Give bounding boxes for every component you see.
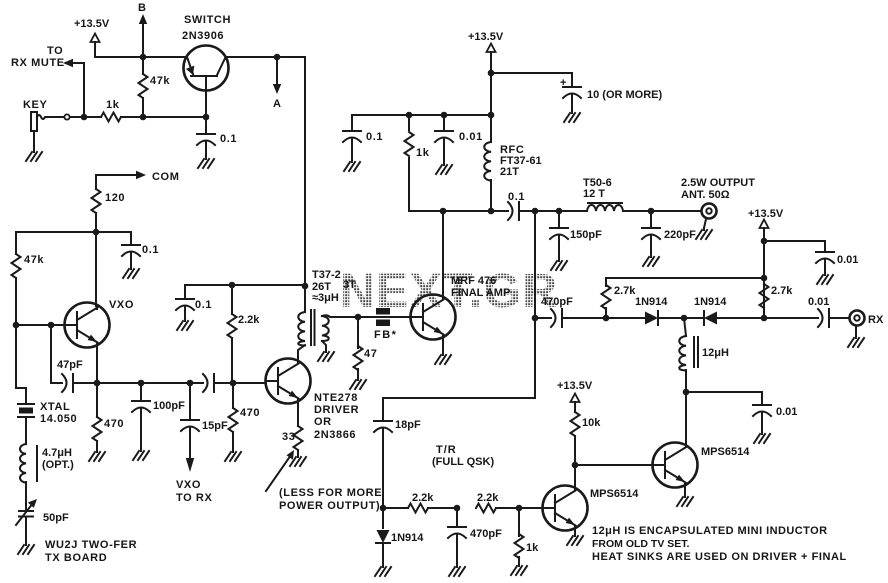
wire final collector: [442, 211, 444, 299]
svg-text:1N914: 1N914: [635, 296, 668, 308]
junction 1k QSK: [516, 505, 523, 512]
svg-text:10k: 10k: [582, 417, 601, 429]
wire crystal branch: [16, 325, 26, 403]
resistor 470 (VXO emitter): [93, 383, 125, 450]
junction driver base node: [230, 380, 237, 387]
capacitor 220pF: [642, 211, 696, 255]
ground (crystal chain): [18, 543, 34, 554]
resistor 10k: [571, 402, 602, 465]
capacitor 15pF: [181, 383, 228, 458]
junction VXO base node: [13, 322, 20, 329]
ground (100pF): [133, 449, 149, 460]
ground (220pF): [643, 255, 659, 266]
svg-text:47pF: 47pF: [57, 359, 83, 371]
node COM arrow: [96, 171, 179, 189]
svg-text:(FULL QSK): (FULL QSK): [432, 456, 494, 468]
ground (470 driver base): [225, 450, 241, 461]
ground (33): [290, 455, 306, 466]
junction 220pF: [648, 208, 655, 215]
transistor NTE278 driver: [266, 359, 360, 442]
resistor 1k (Q1 base): [515, 508, 540, 564]
junction 10uF tap: [488, 70, 495, 77]
svg-text:+13.5V: +13.5V: [748, 208, 784, 220]
resistor 2.7k (left): [602, 278, 765, 318]
svg-text:18pF: 18pF: [395, 419, 421, 431]
junction 2.7k left: [603, 315, 610, 322]
wire to switch base: [143, 90, 206, 117]
svg-text:+: +: [560, 77, 566, 89]
svg-text:1k: 1k: [106, 99, 120, 111]
capacitor 18pF: [374, 419, 421, 508]
ground (1k QSK): [511, 564, 527, 575]
svg-text:0.1: 0.1: [142, 244, 159, 256]
transistor MPS6514 Q1: [543, 486, 640, 531]
wire VXO collector: [96, 232, 97, 309]
svg-text:FINAL AMP: FINAL AMP: [451, 287, 510, 299]
svg-text:NEXT.GR: NEXT.GR: [340, 265, 559, 318]
inductor 4.7uH (OPT.): [20, 444, 74, 510]
key jack: [23, 99, 84, 150]
svg-text:0.1: 0.1: [366, 131, 383, 143]
svg-text:OR: OR: [314, 416, 332, 428]
junction key line: [81, 114, 88, 121]
wire Q2 emitter: [684, 484, 686, 495]
svg-text:FB*: FB*: [374, 329, 397, 341]
ground (Q2 emitter): [677, 495, 693, 506]
svg-text:0.01: 0.01: [808, 296, 829, 308]
capacitor 47pF: [57, 359, 97, 392]
capacitor 0.1 (output coupling): [508, 191, 587, 220]
resistor 2.7k (right): [760, 284, 794, 308]
svg-text:33: 33: [282, 431, 295, 443]
svg-text:15pF: 15pF: [202, 420, 228, 432]
svg-text:TO RX: TO RX: [176, 492, 212, 504]
svg-text:MRF 476: MRF 476: [451, 275, 496, 287]
junction 12uH tap: [681, 315, 688, 322]
wire +13.5V down: [490, 52, 492, 115]
svg-text:ANT. 50Ω: ANT. 50Ω: [681, 189, 730, 201]
connector RX: [850, 311, 884, 337]
resistor 47 (final base): [354, 317, 378, 378]
ground (150pF): [551, 259, 567, 270]
svg-text:(OPT.): (OPT.): [42, 459, 74, 471]
resistor 2.2k (QSK a): [383, 492, 456, 513]
wire +13.5V to node B: [95, 42, 143, 57]
wire cap to driver base: [214, 382, 266, 384]
svg-text:VXO: VXO: [109, 299, 134, 311]
svg-text:T37-2: T37-2: [312, 269, 341, 281]
svg-text:1N914: 1N914: [391, 532, 424, 544]
wire Q2 collector: [685, 392, 687, 447]
ground (key sleeve): [26, 150, 42, 161]
transformer T37-2: [298, 269, 357, 350]
ground (0.01 right): [817, 273, 833, 284]
ground (ANT): [696, 228, 712, 239]
svg-text:TX BOARD: TX BOARD: [45, 552, 107, 564]
capacitor 470pF (RX coupling): [535, 296, 605, 327]
svg-text:2.2k: 2.2k: [477, 492, 499, 504]
text WU2J board: [45, 539, 137, 564]
svg-text:RX MUTE: RX MUTE: [11, 57, 65, 69]
ground (bias cap): [177, 319, 193, 330]
svg-text:120: 120: [105, 192, 125, 204]
svg-text:NTE278: NTE278: [314, 392, 358, 404]
wire Q1 emitter: [574, 527, 576, 534]
junction FB node: [355, 314, 362, 321]
svg-text:470pF: 470pF: [470, 528, 502, 540]
svg-text:47: 47: [364, 348, 377, 360]
svg-text:POWER OUTPUT): POWER OUTPUT): [279, 500, 380, 512]
capacitor 100pF: [132, 383, 185, 449]
transistor VXO: [65, 299, 135, 348]
svg-text:1k: 1k: [416, 147, 430, 159]
svg-text:2N3866: 2N3866: [314, 429, 356, 441]
resistor 1k (driver feed): [405, 115, 444, 211]
power +13.5V symbol (right): [748, 208, 784, 228]
svg-text:MPS6514: MPS6514: [590, 488, 639, 500]
resistor 470 (driver base): [229, 383, 261, 450]
capacitor 0.01 (RX coupling): [764, 296, 848, 327]
ground (0.01 keying): [754, 432, 770, 443]
svg-text:50pF: 50pF: [43, 512, 69, 524]
svg-text:+13.5V: +13.5V: [557, 380, 593, 392]
resistor 2.2k (QSK b): [476, 492, 542, 513]
svg-text:SWITCH: SWITCH: [184, 14, 231, 26]
svg-text:47k: 47k: [150, 75, 170, 87]
svg-text:2.2k: 2.2k: [412, 492, 434, 504]
wire collector node left: [16, 232, 96, 254]
power +13.5V symbol (QSK): [557, 380, 593, 402]
wire 535 down to RX line: [534, 211, 536, 318]
svg-text:470: 470: [240, 407, 260, 419]
svg-text:2.2k: 2.2k: [238, 314, 260, 326]
ground (470 VXO emitter): [89, 450, 105, 461]
svg-text:FROM OLD TV SET.: FROM OLD TV SET.: [592, 538, 690, 550]
resistor 47k (VXO base): [12, 254, 45, 325]
wire VXO emitter: [96, 344, 98, 383]
node A arrow down: [273, 57, 281, 110]
capacitor 0.01 (right supply bypass): [764, 241, 858, 273]
capacitor 470pF (QSK): [448, 508, 502, 565]
svg-text:10 (OR MORE): 10 (OR MORE): [587, 89, 663, 101]
junction VXO emitter: [94, 380, 101, 387]
junction node B: [140, 54, 147, 61]
ground (switch base cap): [198, 157, 214, 168]
junction 150pF: [556, 208, 563, 215]
svg-text:21T: 21T: [500, 166, 519, 178]
junction 2.7k right top: [761, 275, 768, 282]
svg-text:4.7μH: 4.7μH: [42, 447, 72, 459]
resistor 33 (driver emitter): [282, 426, 303, 455]
junction 2.7k right bottom: [761, 315, 768, 322]
svg-text:47k: 47k: [24, 254, 44, 266]
svg-text:KEY: KEY: [23, 99, 47, 111]
resistor 47k (switch base pull-up): [139, 57, 171, 117]
svg-text:RX: RX: [868, 314, 884, 326]
transistor MPS6514 Q2: [653, 443, 751, 488]
svg-text:WU2J TWO-FER: WU2J TWO-FER: [45, 539, 137, 551]
capacitor 150pF: [550, 211, 602, 259]
ground (0.01 supply): [436, 163, 452, 174]
svg-text:0.01: 0.01: [837, 254, 858, 266]
resistor 1k (key line): [84, 99, 143, 122]
svg-text:12 T: 12 T: [583, 188, 605, 200]
junction Q1 collector / 10k: [572, 462, 579, 469]
transistor MRF476 final amp: [411, 275, 511, 340]
wire A corner down to transformer node: [304, 57, 306, 286]
wire driver collector to transformer: [298, 345, 305, 363]
inductor T50-6 12T: [583, 177, 701, 211]
junction 470pF QSK: [454, 505, 461, 512]
node VXO TO RX arrow: [176, 458, 212, 504]
capacitor 0.01 (keying filter): [686, 392, 797, 432]
power +13.5V symbol (top middle): [468, 31, 504, 52]
variable capacitor 50pF: [16, 499, 69, 543]
junction final collector node: [440, 208, 447, 215]
junction VXO collector node: [93, 229, 100, 236]
svg-text:TO: TO: [47, 45, 63, 57]
capacitor 0.01 (supply bypass): [435, 115, 483, 163]
svg-text:0.1: 0.1: [220, 133, 237, 145]
ground (470pF QSK): [449, 565, 465, 576]
junction RX line left: [532, 315, 539, 322]
wire driver emitter: [297, 400, 299, 426]
ground (10uF): [564, 111, 580, 122]
svg-text:XTAL: XTAL: [40, 401, 70, 413]
capacitor 10 (OR MORE) electrolytic: [491, 73, 663, 111]
junction 0.01 top: [441, 112, 448, 119]
junction 47pF tap: [48, 322, 55, 329]
ground (VXO collector cap): [123, 267, 139, 278]
svg-text:2.5W OUTPUT: 2.5W OUTPUT: [681, 177, 755, 189]
wire base node to VXO: [16, 324, 66, 326]
inductor 12uH: [679, 318, 729, 392]
svg-text:A: A: [273, 98, 281, 110]
capacitor coupling (to driver base): [203, 374, 214, 392]
capacitor 0.1 (VXO collector bypass): [96, 232, 159, 267]
svg-text:COM: COM: [152, 171, 179, 183]
junction 1k top: [406, 112, 413, 119]
inductor RFC FT37-61 21T: [484, 115, 541, 211]
capacitor 0.1 (supply bypass): [343, 115, 383, 160]
wire QSK tap: [383, 318, 535, 420]
crystal XTAL 14.050: [18, 401, 77, 444]
diode 1N914 (clamp): [376, 508, 424, 565]
wire 47pF branch down: [51, 325, 62, 383]
junction 1k / 47k: [140, 114, 147, 121]
junction RFC bottom: [488, 208, 495, 215]
svg-text:T/R: T/R: [436, 444, 457, 456]
junction supply bus: [488, 112, 495, 119]
wire / arrow to RX MUTE: [11, 45, 84, 117]
ground (RX): [848, 336, 864, 347]
svg-text:0.1: 0.1: [195, 299, 212, 311]
svg-text:+13.5V: +13.5V: [468, 31, 504, 43]
svg-text:1N914: 1N914: [694, 296, 727, 308]
diode 1N914 (right): [684, 296, 764, 325]
connector ANT output: [681, 177, 755, 228]
node B arrow up: [138, 2, 147, 57]
svg-text:(LESS FOR MORE: (LESS FOR MORE: [279, 487, 382, 499]
svg-text:≈3μH: ≈3μH: [312, 292, 339, 304]
svg-text:MPS6514: MPS6514: [701, 446, 750, 458]
wire emitter to +13.5V rail: [143, 56, 187, 58]
svg-text:100pF: 100pF: [153, 400, 185, 412]
wire Q1 collector: [574, 465, 576, 490]
text T/R: [432, 444, 494, 468]
svg-text:HEAT SINKS ARE USED ON DRIVER: HEAT SINKS ARE USED ON DRIVER + FINAL: [592, 551, 847, 563]
ground (47): [350, 378, 366, 389]
junction switch base: [203, 114, 210, 121]
junction 100pF: [138, 380, 145, 387]
svg-text:470pF: 470pF: [541, 296, 573, 308]
junction 535: [532, 208, 539, 215]
svg-text:2.7k: 2.7k: [771, 285, 793, 297]
ferrite bead FB*: [358, 308, 410, 341]
note text bottom right: [592, 525, 847, 563]
wire final emitter: [442, 336, 444, 353]
ground (final emitter): [435, 353, 451, 364]
junction 15pF: [187, 380, 194, 387]
svg-text:VXO: VXO: [176, 479, 201, 491]
junction Q2 collector node: [683, 389, 690, 396]
resistor 120: [92, 189, 126, 232]
wire VXO output line: [97, 382, 203, 384]
resistor 2.2k (driver bias): [228, 285, 261, 383]
junction QSK line left: [380, 505, 387, 512]
transistor Q switch 2N3906 (PNP): [182, 14, 231, 91]
junction transformer primary node: [302, 283, 309, 290]
svg-text:3T: 3T: [343, 279, 356, 291]
wire Q1 collector to Q2 base: [575, 464, 652, 466]
wire +13.5V right down: [763, 228, 765, 318]
ground (T37-2 secondary): [318, 350, 334, 361]
diode 1N914 (left): [606, 296, 683, 325]
svg-text:12μH IS ENCAPSULATED MINI INDU: 12μH IS ENCAPSULATED MINI INDUCTOR: [592, 525, 828, 537]
svg-text:+13.5V: +13.5V: [74, 18, 110, 30]
ground (Q1 emitter): [567, 534, 583, 545]
svg-text:470: 470: [104, 418, 124, 430]
capacitor 0.1 (bias bypass): [176, 285, 212, 319]
svg-text:0.01: 0.01: [459, 131, 483, 143]
power +13.5V symbol (top-left): [74, 18, 110, 42]
svg-text:0.1: 0.1: [508, 191, 525, 203]
svg-text:12μH: 12μH: [702, 347, 729, 359]
svg-text:1k: 1k: [526, 542, 539, 554]
svg-text:220pF: 220pF: [664, 229, 696, 241]
svg-text:0.01: 0.01: [776, 406, 797, 418]
wire collector line: [443, 210, 508, 212]
svg-text:150pF: 150pF: [570, 229, 602, 241]
ground (0.1 supply): [344, 160, 360, 171]
capacitor 0.1 (switch base bypass): [197, 117, 237, 157]
junction collector / A: [274, 54, 281, 61]
ground (1N914 clamp): [375, 565, 391, 576]
junction right supply: [761, 238, 768, 245]
svg-text:14.050: 14.050: [40, 413, 77, 425]
wire collector to node A corner: [226, 56, 305, 58]
svg-text:2N3906: 2N3906: [182, 30, 224, 42]
svg-text:DRIVER: DRIVER: [314, 404, 359, 416]
wire bias line: [185, 284, 305, 286]
wire supply bus: [352, 114, 491, 116]
junction 2.2k top: [229, 282, 236, 289]
svg-text:B: B: [138, 2, 146, 14]
svg-text:2.7k: 2.7k: [614, 285, 636, 297]
annotation arrow (less for more power): [266, 450, 382, 512]
